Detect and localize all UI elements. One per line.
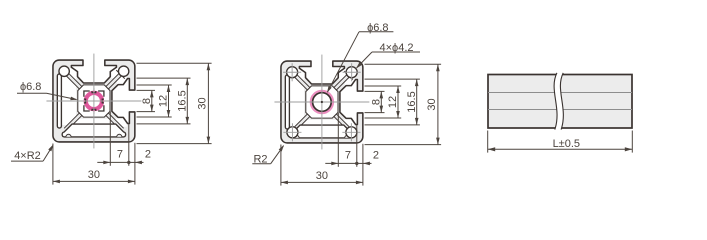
side view bar <box>488 75 632 129</box>
screw boss notches <box>294 135 299 138</box>
left wall cavity <box>57 74 61 128</box>
bottom dimension 7 / 2 <box>109 112 111 166</box>
svg-text:16.5: 16.5 <box>177 90 189 111</box>
svg-text:L±0.5: L±0.5 <box>553 138 580 150</box>
webs / ribs <box>104 73 122 91</box>
air frame octagon around center <box>78 85 110 117</box>
centerlines <box>321 55 323 150</box>
middle profile body fill <box>281 61 363 143</box>
svg-text:2: 2 <box>373 150 379 162</box>
corner holes <box>59 66 69 76</box>
air frame octagon around center <box>306 86 338 118</box>
left profile body fill <box>53 60 135 142</box>
svg-text:8: 8 <box>371 99 383 105</box>
webs / ribs <box>332 74 350 92</box>
dimension L+-0.5 <box>487 131 489 153</box>
svg-text:30: 30 <box>88 169 100 181</box>
bottom wall cavity <box>290 125 353 138</box>
left wall cavity <box>285 75 289 129</box>
svg-text:ϕ6.8: ϕ6.8 <box>20 81 41 93</box>
outer contour <box>53 60 135 142</box>
svg-text:2: 2 <box>145 149 151 161</box>
corner block inner faces <box>344 71 352 79</box>
bottom dimension 30 <box>280 145 282 186</box>
corner block inner faces <box>116 70 124 78</box>
bottom wall cavity <box>62 124 125 137</box>
svg-text:8: 8 <box>141 98 153 104</box>
svg-text:30: 30 <box>426 98 438 110</box>
center hole phi 6.8 <box>84 91 104 111</box>
svg-text:7: 7 <box>345 150 351 162</box>
svg-text:7: 7 <box>117 149 123 161</box>
screw boss notches <box>66 134 71 137</box>
slot lines on bar <box>488 92 632 94</box>
bottom dimension 30 <box>52 144 54 185</box>
interior air cavities (white) <box>61 77 76 125</box>
bottom dimension 7 / 2 <box>337 113 339 167</box>
svg-text:12: 12 <box>387 96 399 108</box>
vertical dimension chain <box>137 89 156 91</box>
vertical dimension chain <box>365 90 385 92</box>
svg-text:30: 30 <box>316 170 328 182</box>
outer contour <box>281 61 363 143</box>
interior air cavities (white) <box>289 78 304 126</box>
svg-text:16.5: 16.5 <box>406 91 418 112</box>
center hole phi 6.8 <box>311 91 332 112</box>
break line <box>554 73 563 130</box>
svg-text:12: 12 <box>158 95 170 107</box>
svg-text:30: 30 <box>196 97 208 109</box>
centerlines <box>93 54 95 149</box>
svg-text:4×R2: 4×R2 <box>14 150 41 162</box>
corner holes <box>287 67 298 78</box>
